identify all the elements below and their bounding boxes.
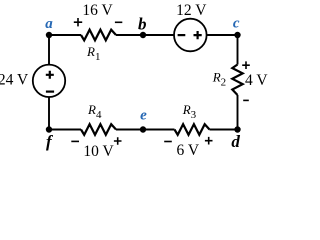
wire R4 to R3 through node e: [116, 129, 175, 131]
node d junction dot: [234, 126, 240, 132]
svg-text:R3: R3: [182, 102, 197, 121]
wire right rail c down to R2: [237, 35, 239, 65]
24V plus sign: [46, 71, 54, 79]
wire R3 to node d: [210, 129, 238, 131]
node b junction dot: [140, 32, 146, 38]
svg-text:a: a: [45, 16, 53, 32]
resistor R2: [232, 65, 242, 96]
R3 minus polarity: [164, 141, 172, 143]
node f junction dot: [46, 126, 52, 132]
resistor R1: [81, 30, 116, 41]
svg-text:R4: R4: [87, 102, 102, 121]
12V plus sign: [194, 31, 202, 39]
svg-text:6 V: 6 V: [177, 142, 200, 159]
svg-text:e: e: [140, 107, 147, 123]
node e junction dot: [140, 126, 146, 132]
R1 plus polarity: [74, 18, 82, 26]
resistor R4: [81, 124, 116, 135]
svg-text:b: b: [138, 15, 147, 34]
R4 minus polarity: [71, 140, 79, 142]
svg-text:f: f: [46, 132, 54, 151]
svg-text:24 V: 24 V: [0, 72, 29, 89]
voltage source 12V: [174, 19, 207, 52]
wire 12V source to node c: [207, 34, 238, 36]
svg-text:4 V: 4 V: [245, 72, 268, 89]
R2 plus polarity: [242, 61, 250, 69]
svg-text:16 V: 16 V: [82, 2, 113, 19]
24V minus sign: [46, 90, 54, 92]
svg-text:c: c: [233, 15, 240, 31]
svg-text:R1: R1: [86, 44, 100, 63]
R2 minus polarity: [243, 99, 249, 101]
wire bottom rail f to R4: [49, 129, 81, 131]
R4 plus polarity: [114, 137, 122, 145]
svg-text:12 V: 12 V: [176, 2, 207, 19]
node c junction dot: [234, 32, 240, 38]
R3 plus polarity: [205, 137, 213, 145]
wire R1 to 12V source: [116, 34, 174, 36]
wire left rail a down to 24V source: [48, 35, 50, 65]
wire R2 down to node d: [237, 95, 239, 130]
node a junction dot: [46, 32, 52, 38]
voltage source 24V: [33, 65, 65, 97]
R1 minus polarity: [115, 21, 122, 23]
svg-text:10 V: 10 V: [83, 143, 114, 160]
svg-text:d: d: [231, 132, 240, 151]
svg-text:R2: R2: [212, 70, 226, 89]
resistor R3: [175, 124, 210, 135]
wire 24V source to node f: [48, 97, 50, 130]
12V minus sign: [178, 34, 186, 36]
wire top rail a to R1: [49, 34, 81, 36]
